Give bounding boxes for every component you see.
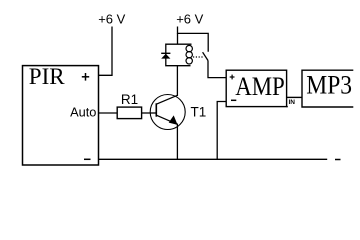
wire R1 to base [142,112,157,114]
resistor R1 [117,107,141,119]
MP3 box (open right side) [301,70,353,107]
svg-text:IN: IN [289,99,296,106]
svg-text:MP3: MP3 [306,72,352,100]
wire switch to AMP + [208,61,226,78]
relay RL1 box [166,44,192,65]
svg-text:PIR: PIR [29,64,65,89]
relay switch blade [203,52,208,60]
PIR box [23,66,99,165]
wire +6V left down to PIR + terminal [98,27,112,76]
wire tee down to relay [177,33,179,44]
AMP box [226,70,286,106]
IN port box top edge [287,96,302,98]
svg-text:R1: R1 [121,92,138,107]
AMP + terminal [230,75,235,80]
wire AMP - to ground [217,102,226,160]
svg-text:+6 V: +6 V [176,12,203,27]
svg-text:+6 V: +6 V [98,12,125,27]
AMP - terminal [231,99,236,101]
wire collector to relay [176,66,178,96]
svg-text:Auto: Auto [70,105,96,120]
AMP bottom stub under IN [287,106,288,108]
ground rail [98,158,327,160]
flyback diode on relay left edge [161,53,170,58]
transistor T1 [150,95,185,130]
relay coil [186,45,192,64]
PIR + terminal [82,73,89,81]
wire +6V right feed tee [178,27,209,52]
wire Auto to R1 [98,112,117,114]
wire emitter to ground [176,124,178,160]
svg-text:T1: T1 [191,104,207,119]
ground rail dash [335,159,341,161]
PIR - terminal [84,158,91,160]
relay mechanical linkage (dotted) [193,56,203,58]
svg-text:AMP: AMP [235,73,285,102]
